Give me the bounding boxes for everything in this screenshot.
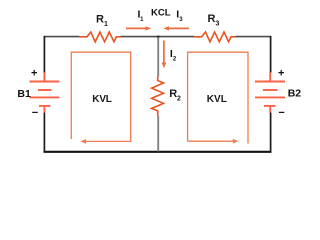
- wire middle upper: [157, 36, 159, 76]
- svg-text:R: R: [208, 13, 216, 25]
- current I3 arrow: [169, 27, 189, 29]
- svg-text:+: +: [31, 67, 37, 79]
- resistor R2: [152, 77, 164, 116]
- svg-text:B1: B1: [17, 88, 31, 100]
- resistor R1: [79, 32, 121, 42]
- svg-text:KVL: KVL: [92, 94, 111, 105]
- wire top-middle segment: [121, 36, 195, 38]
- KVL loop right arrowhead: [233, 139, 239, 144]
- wire right lower: [270, 112, 272, 152]
- wire bottom: [44, 151, 272, 153]
- svg-text:+: +: [278, 67, 284, 79]
- wire middle lower: [157, 116, 159, 152]
- svg-text:−: −: [278, 107, 284, 119]
- wire top-right segment: [236, 36, 272, 38]
- KVL loop left: [71, 52, 130, 141]
- svg-text:1: 1: [104, 21, 108, 28]
- svg-text:−: −: [32, 107, 38, 119]
- KVL loop right: [188, 52, 248, 143]
- wire left upper: [43, 36, 45, 73]
- KVL loop left arrowhead: [80, 139, 86, 144]
- wire left lower: [43, 112, 45, 152]
- svg-text:KCL: KCL: [151, 8, 171, 19]
- current I1 arrow: [126, 27, 146, 29]
- svg-text:KVL: KVL: [207, 94, 227, 105]
- svg-text:B2: B2: [288, 88, 302, 100]
- svg-text:3: 3: [216, 21, 220, 28]
- wire right upper: [270, 36, 272, 73]
- wire top-left segment: [44, 36, 80, 38]
- battery B2: [255, 72, 285, 112]
- resistor R3: [194, 32, 236, 42]
- svg-text:R: R: [169, 88, 177, 100]
- KVL loop right bottom edge: [188, 140, 234, 142]
- node junction: [157, 36, 160, 38]
- current I2 arrow: [163, 41, 165, 64]
- battery B1: [30, 72, 60, 112]
- svg-text:R: R: [96, 14, 104, 26]
- svg-text:2: 2: [177, 96, 181, 103]
